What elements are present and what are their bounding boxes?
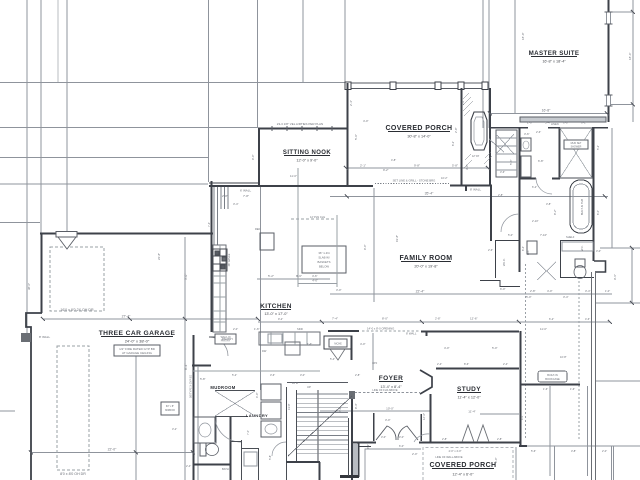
- svg-text:22'-0": 22'-0": [108, 448, 117, 452]
- mudroom closet walls: [215, 390, 255, 392]
- shower diagonals: [560, 128, 592, 178]
- extension line V x260.5: [260, 187, 262, 390]
- svg-text:1'-6": 1'-6": [570, 387, 575, 391]
- washer box: [261, 384, 281, 400]
- wall nook north: [258, 128, 347, 130]
- svg-text:22'-4": 22'-4": [416, 290, 425, 294]
- label underline: [261, 309, 291, 311]
- svg-text:12'-0": 12'-0": [422, 413, 426, 420]
- svg-text:2'-8": 2'-8": [530, 289, 536, 293]
- study window leaf 1: [462, 425, 474, 442]
- soffit dashed: [291, 218, 335, 220]
- extension line H y411 left stub: [0, 410, 15, 412]
- svg-text:5'-4": 5'-4": [545, 121, 551, 125]
- svg-text:7'-0": 7'-0": [246, 430, 250, 435]
- fireplace inner: [474, 117, 484, 145]
- kitchen lower dim line: [193, 370, 320, 372]
- svg-text:6'-2": 6'-2": [532, 185, 537, 189]
- svg-text:35'-4": 35'-4": [425, 192, 434, 196]
- pantry note box: [215, 334, 236, 344]
- island ext line v337: [336, 215, 338, 287]
- svg-text:10'-2": 10'-2": [441, 176, 448, 180]
- svg-text:5'-2": 5'-2": [596, 145, 600, 150]
- extension line H y446 right: [519, 445, 640, 447]
- svg-text:11'-0": 11'-0": [540, 327, 547, 331]
- extension line H y82.5: [0, 82, 345, 84]
- svg-text:6'-1": 6'-1": [581, 121, 587, 125]
- svg-text:7'-4": 7'-4": [207, 222, 211, 227]
- right dimension H y12: [608, 11, 633, 13]
- study window leaf 2: [477, 425, 489, 442]
- dimension line foyer y411: [320, 410, 430, 412]
- wall master east: [607, 0, 609, 122]
- svg-text:SHELF: SHELF: [566, 235, 575, 239]
- svg-text:NICHE: NICHE: [334, 343, 342, 346]
- garage door 2 dashed: [57, 346, 89, 470]
- svg-text:4'-0": 4'-0": [547, 289, 553, 293]
- extension line V x208.5: [208, 0, 210, 182]
- svg-text:1'-0": 1'-0": [605, 289, 610, 293]
- label underline: [284, 155, 330, 157]
- label underline: [388, 131, 450, 133]
- refrigerator: [260, 233, 274, 250]
- label underline: [401, 261, 451, 263]
- stair rail west: [296, 390, 298, 462]
- svg-text:12' PLN CLG: 12' PLN CLG: [310, 215, 325, 219]
- window ticks: [605, 11, 613, 13]
- bath vanity: [194, 417, 216, 443]
- wall jog: [465, 185, 467, 191]
- stair rail east: [348, 418, 350, 476]
- svg-text:1'-6": 1'-6": [543, 387, 548, 391]
- wall garage north: [40, 233, 213, 235]
- powder door swing: [330, 349, 345, 360]
- dimension line kitchen y279: [257, 278, 330, 280]
- svg-text:2'-8": 2'-8": [454, 127, 458, 133]
- laundry door arc: [272, 442, 286, 456]
- right extension V x612: [611, 128, 613, 248]
- svg-text:3'-6": 3'-6": [524, 132, 530, 136]
- dimension line master y113.5: [490, 113, 607, 115]
- svg-text:8'-6": 8'-6": [296, 274, 302, 278]
- right extension H y381: [595, 380, 640, 382]
- wall family east / bath west: [519, 128, 521, 272]
- svg-text:3'-0": 3'-0": [336, 288, 342, 292]
- svg-text:8'-0": 8'-0": [382, 317, 388, 321]
- svg-text:5/8 TYPE X GYP BD: 5/8 TYPE X GYP BD: [190, 375, 193, 398]
- svg-text:19'-8": 19'-8": [395, 235, 399, 242]
- svg-text:11'-4": 11'-4": [468, 410, 475, 414]
- svg-text:BATH: BATH: [222, 467, 229, 471]
- svg-text:5'-0": 5'-0": [526, 295, 532, 299]
- cabinet dividers: [271, 332, 307, 345]
- right porch verticals: [554, 446, 556, 480]
- svg-text:5'-2": 5'-2": [232, 373, 237, 377]
- stoop slab outline: [365, 449, 421, 480]
- svg-text:18'-4": 18'-4": [628, 52, 632, 60]
- closet wall vertical: [258, 448, 260, 480]
- svg-text:MIRROR: MIRROR: [165, 409, 175, 412]
- dimension line study y414: [480, 413, 519, 415]
- wall porch west: [347, 83, 349, 186]
- svg-text:7'-10": 7'-10": [540, 233, 547, 237]
- svg-text:SLAB W/: SLAB W/: [318, 256, 330, 260]
- svg-text:2'-4": 2'-4": [503, 362, 508, 366]
- powder room outline: [324, 336, 352, 349]
- svg-text:3'-4": 3'-4": [585, 289, 591, 293]
- svg-text:20'-0" x 19'-8": 20'-0" x 19'-8": [414, 265, 438, 269]
- header tag box: [56, 232, 77, 238]
- door swing X: [496, 134, 514, 154]
- svg-text:13'-0" x 17'-0": 13'-0" x 17'-0": [264, 312, 288, 316]
- porch post 4: [458, 82, 464, 90]
- svg-text:STUDY: STUDY: [457, 386, 481, 393]
- fireplace firebox: [471, 112, 487, 150]
- extension line H y222.5: [0, 222, 40, 224]
- wall porch east: [461, 88, 463, 186]
- svg-text:9'-0": 9'-0": [363, 244, 367, 250]
- svg-text:3'-8": 3'-8": [546, 202, 551, 206]
- wall master hall west: [490, 186, 492, 241]
- svg-text:8' WALL: 8' WALL: [470, 188, 481, 192]
- wall toilet north: [560, 240, 594, 242]
- wall study west: [430, 394, 432, 442]
- svg-text:3'-0": 3'-0": [300, 373, 305, 377]
- svg-text:9'-2": 9'-2": [383, 168, 389, 172]
- svg-text:30'-8" x 14'-0": 30'-8" x 14'-0": [407, 135, 431, 139]
- bookcase note box: [538, 371, 567, 382]
- pantry door leaf: [209, 336, 228, 338]
- wall hall west: [520, 331, 522, 446]
- svg-text:2'-0": 2'-0": [233, 327, 238, 331]
- svg-text:W.I.C.: W.I.C.: [502, 258, 506, 266]
- svg-text:23-3 1/8" VEL A/RTIES PER PLAN: 23-3 1/8" VEL A/RTIES PER PLAN: [277, 122, 323, 126]
- right dimension V x633 top: [632, 0, 634, 122]
- hall wall stub: [230, 441, 242, 443]
- svg-text:3'-0": 3'-0": [465, 164, 469, 170]
- svg-text:6'-4": 6'-4": [521, 246, 525, 251]
- svg-text:1'-6": 1'-6": [307, 342, 312, 346]
- svg-text:SITTING NOOK: SITTING NOOK: [283, 150, 331, 156]
- bath sink: [199, 423, 211, 437]
- extension line V x303: [302, 0, 304, 83]
- svg-text:1'-6": 1'-6": [254, 327, 260, 331]
- svg-text:10'-0": 10'-0": [386, 407, 394, 411]
- svg-text:3'-0": 3'-0": [184, 274, 188, 280]
- front door leaf 1: [376, 426, 396, 440]
- garage door 1 dashed: [50, 247, 104, 311]
- svg-text:BUILT-IN TUB: BUILT-IN TUB: [580, 199, 584, 216]
- svg-text:3'-4": 3'-4": [563, 295, 569, 299]
- svg-text:2'-8": 2'-8": [497, 437, 502, 441]
- wall nook west: [258, 128, 260, 187]
- opening dashed: [362, 330, 420, 332]
- label underline: [379, 381, 403, 383]
- powder east wall: [351, 336, 353, 360]
- extension line V x58: [57, 0, 59, 83]
- svg-text:5'-4": 5'-4": [330, 357, 335, 361]
- svg-text:3'-0": 3'-0": [399, 435, 404, 439]
- svg-text:3'-6": 3'-6": [338, 407, 342, 412]
- dimension line porch y196.5: [330, 196, 608, 198]
- front door jamb west: [373, 413, 375, 441]
- dryer box: [261, 402, 281, 419]
- svg-text:8'0 x 8'0 OH DR: 8'0 x 8'0 OH DR: [60, 472, 86, 476]
- toilet bowl: [574, 266, 586, 279]
- stoop wall dark: [340, 475, 359, 478]
- stair top wall: [287, 382, 348, 384]
- laundry sink oval: [265, 424, 277, 434]
- svg-text:5'-6": 5'-6": [531, 449, 536, 453]
- svg-text:8'-4": 8'-4": [354, 403, 358, 409]
- wall nook south outer: [209, 182, 258, 184]
- stair rail mid: [317, 390, 319, 462]
- svg-text:SINK: SINK: [297, 327, 303, 331]
- wall garage west: [41, 233, 43, 313]
- svg-text:9'-2": 9'-2": [278, 317, 283, 321]
- stoop shaft east wall: [358, 443, 360, 477]
- vanity right of wall: [521, 138, 531, 151]
- svg-text:COVERED PORCH: COVERED PORCH: [385, 125, 452, 132]
- wall wic north: [495, 240, 520, 242]
- svg-text:3'-0": 3'-0": [563, 121, 569, 125]
- svg-text:13'-8": 13'-8": [287, 403, 291, 410]
- svg-text:16'-8": 16'-8": [542, 109, 551, 113]
- stair hall wall vertical: [319, 462, 321, 480]
- garage note box: [114, 345, 160, 356]
- kitchen counter: [213, 245, 226, 332]
- svg-text:FAMILY ROOM: FAMILY ROOM: [399, 255, 452, 262]
- wall family south east seg: [421, 331, 519, 333]
- svg-text:2'-4": 2'-4": [349, 100, 353, 106]
- wall wic connector: [499, 280, 501, 287]
- svg-text:BELOW: BELOW: [319, 265, 329, 269]
- extension line V x483: [482, 0, 484, 128]
- svg-text:5'-6": 5'-6": [509, 159, 513, 165]
- svg-text:11'-4" x 12'-0": 11'-4" x 12'-0": [457, 396, 481, 400]
- wc counter: [562, 242, 593, 251]
- kitchen sink cabinet: [268, 334, 282, 343]
- flr above dashed: [350, 392, 420, 394]
- svg-text:2'-8": 2'-8": [527, 121, 533, 125]
- front door leaf 2: [398, 426, 418, 440]
- svg-text:5'-0": 5'-0": [508, 233, 513, 237]
- svg-text:3'-0": 3'-0": [596, 249, 601, 253]
- svg-text:MASTER SUITE: MASTER SUITE: [529, 50, 580, 57]
- wall foyer south east: [419, 442, 429, 444]
- front door side arcs: [414, 434, 430, 442]
- svg-text:14'-0 x 8'-0 OPENING: 14'-0 x 8'-0 OPENING: [367, 327, 394, 331]
- wall bath mid horizontal: [519, 178, 536, 180]
- wall hatch band south: [520, 117, 606, 122]
- svg-text:2'-6": 2'-6": [488, 248, 493, 252]
- entry zigzag wall: [420, 370, 432, 394]
- wall right double outer: [591, 272, 593, 446]
- svg-text:4'-8": 4'-8": [391, 158, 396, 162]
- island note box: [302, 246, 346, 273]
- svg-text:FOYER: FOYER: [379, 375, 403, 382]
- vanity sink oval: [523, 141, 529, 149]
- wall bath mid vertical: [559, 128, 561, 178]
- porch slab dashed rect: [423, 448, 513, 480]
- svg-text:6'-0": 6'-0": [500, 287, 506, 291]
- svg-text:2'-8": 2'-8": [442, 437, 447, 441]
- svg-text:2'-8": 2'-8": [498, 193, 503, 197]
- shower note box: [564, 140, 588, 149]
- svg-text:2'-6": 2'-6": [536, 130, 541, 134]
- svg-text:6'-8": 6'-8": [538, 159, 544, 163]
- wall hall east dashed: [525, 264, 527, 440]
- svg-text:24'-0" x 38'-0": 24'-0" x 38'-0": [125, 339, 150, 344]
- extension line V x136: [135, 345, 137, 480]
- extension line H y157.5: [0, 157, 208, 159]
- mudroom north wall: [192, 365, 211, 367]
- svg-text:11'-0": 11'-0": [290, 174, 297, 178]
- right extension H y303: [595, 302, 640, 304]
- linen shelves: [496, 130, 517, 177]
- wall wic south seg2: [500, 286, 520, 288]
- svg-text:5'-8": 5'-8": [200, 377, 206, 381]
- svg-text:9'-0": 9'-0": [251, 154, 255, 160]
- extension line V x515: [514, 0, 516, 114]
- porch post 2: [390, 82, 396, 90]
- toilet tank: [575, 259, 585, 267]
- wall bath east: [593, 128, 595, 261]
- wall study north: [436, 368, 519, 370]
- porch slab double east: [515, 447, 517, 480]
- svg-text:LIN: LIN: [526, 251, 530, 255]
- svg-text:16'-8" x 18'-4": 16'-8" x 18'-4": [542, 60, 566, 64]
- svg-text:2'-8": 2'-8": [435, 317, 441, 321]
- family door arc east: [501, 214, 519, 232]
- label underline: [457, 392, 481, 394]
- closet slider X: [215, 391, 255, 416]
- window master east 2: [607, 95, 611, 106]
- svg-text:3'-0": 3'-0": [385, 418, 391, 422]
- svg-text:8'-4": 8'-4": [184, 364, 188, 370]
- svg-text:8'-2": 8'-2": [553, 209, 557, 215]
- mirror note box: [161, 402, 179, 415]
- closet wall horizontal: [242, 448, 258, 450]
- base cabinets south: [259, 332, 320, 345]
- extension line V x27: [26, 0, 28, 333]
- svg-text:UP: UP: [307, 385, 311, 389]
- extension line V x374 family: [373, 188, 375, 302]
- wall nook south: [209, 185, 373, 187]
- wall jog east: [594, 261, 606, 272]
- wall family north east seg: [450, 185, 466, 187]
- svg-text:THREE CAR GARAGE: THREE CAR GARAGE: [99, 330, 176, 337]
- svg-text:36" 1-3/4: 36" 1-3/4: [318, 251, 330, 255]
- extension line H y184: [0, 183, 208, 185]
- chimney hatch: [463, 93, 492, 168]
- extension line H y127.5: [0, 127, 258, 129]
- left extension lines group: [0, 0, 345, 411]
- porch post 1: [345, 82, 351, 90]
- dark seg y446: [519, 445, 527, 447]
- svg-text:16 R: 16 R: [292, 381, 298, 385]
- wall foyer west: [351, 391, 353, 480]
- island dim line: [298, 283, 337, 285]
- wall corner jog: [426, 331, 428, 336]
- right dimension H y104.5: [608, 104, 633, 106]
- laundry sink box: [261, 421, 281, 437]
- svg-text:2'-10": 2'-10": [532, 219, 539, 223]
- porch beam upper: [345, 82, 488, 84]
- svg-text:60" x 8": 60" x 8": [166, 405, 174, 408]
- svg-text:36" RANGE: 36" RANGE: [228, 253, 231, 266]
- gyp wall hatch line: [197, 366, 199, 480]
- svg-text:2'-4": 2'-4": [186, 464, 191, 468]
- wall garage east (mudroom): [193, 335, 195, 480]
- svg-text:4'-6": 4'-6": [585, 317, 590, 321]
- dimension line family y294: [330, 293, 612, 295]
- extension line V x257.5: [257, 0, 259, 128]
- svg-text:18'-0": 18'-0": [521, 32, 525, 40]
- tub inner: [573, 184, 589, 229]
- wall study south: [429, 442, 520, 444]
- island ext line v298: [297, 168, 299, 287]
- wall kitchen west: [211, 181, 213, 332]
- fireplace flue line: [489, 139, 504, 152]
- svg-text:2'-4": 2'-4": [437, 362, 442, 366]
- header flag symbol: [58, 237, 76, 249]
- svg-text:16'0 x 8'0 2X OH DR: 16'0 x 8'0 2X OH DR: [60, 308, 94, 312]
- svg-text:2'-8": 2'-8": [355, 373, 360, 377]
- svg-text:8' WALL: 8' WALL: [406, 332, 417, 336]
- svg-text:6'-0": 6'-0": [255, 392, 259, 398]
- dimension line garage bottom y452.5: [31, 452, 193, 454]
- right dimension V x632: [631, 248, 633, 303]
- wall bookcase: [521, 384, 580, 386]
- wall corner block: [349, 391, 355, 399]
- bath door arc: [536, 178, 552, 194]
- bath toilet bowl: [206, 444, 219, 456]
- stair break line: [288, 396, 352, 456]
- laundry east wall: [286, 387, 288, 480]
- svg-text:2'-0": 2'-0": [412, 452, 418, 456]
- dimension line hall y322: [258, 321, 610, 323]
- svg-text:6'-0": 6'-0": [596, 210, 600, 215]
- stoop step wall: [358, 446, 371, 448]
- svg-text:8'-6": 8'-6": [464, 362, 469, 366]
- extension line V x550: [549, 386, 551, 476]
- svg-text:6'-2": 6'-2": [549, 317, 554, 321]
- svg-text:REF: REF: [255, 227, 261, 231]
- powder note box: [329, 339, 347, 347]
- svg-text:10'-8": 10'-8": [560, 355, 567, 359]
- svg-text:6'-2": 6'-2": [451, 141, 455, 146]
- label underline: [432, 468, 494, 470]
- cooktop grid: [213, 249, 227, 271]
- peninsula cabinet: [285, 342, 300, 355]
- label underline: [101, 336, 173, 338]
- svg-text:23'-8": 23'-8": [157, 253, 161, 260]
- svg-text:5'-8": 5'-8": [268, 455, 272, 460]
- svg-text:2'-0": 2'-0": [462, 100, 465, 105]
- svg-text:7'-4": 7'-4": [332, 317, 338, 321]
- svg-text:42" FP: 42" FP: [472, 155, 480, 158]
- svg-text:MUDROOM: MUDROOM: [210, 385, 235, 390]
- stair hall wall: [286, 461, 320, 463]
- svg-text:6'-0": 6'-0": [494, 457, 498, 463]
- svg-text:2'-1": 2'-1": [360, 164, 366, 168]
- svg-text:DW: DW: [262, 349, 267, 353]
- svg-text:27'-4": 27'-4": [122, 315, 131, 319]
- wall family south west seg: [328, 330, 359, 332]
- svg-text:5'-8": 5'-8": [452, 164, 458, 168]
- svg-text:BOOKCASE: BOOKCASE: [545, 377, 560, 381]
